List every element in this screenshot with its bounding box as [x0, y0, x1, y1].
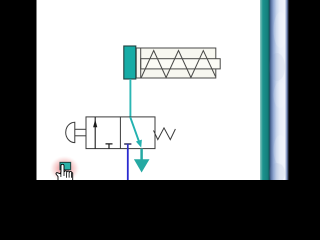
white workspace background: [0, 0, 320, 180]
valve left box blocked port T: [106, 144, 113, 149]
valve right box exhaust path (teal diagonal 2 to 3): [130, 117, 139, 141]
cylinder piston (teal, retracted): [124, 46, 136, 79]
right black pillarbox bar: [289, 0, 320, 180]
cylinder return spring: [141, 51, 215, 78]
air supply component (teal box under cursor): [60, 162, 71, 169]
wire valve port 1 down (blue supply line): [127, 149, 129, 180]
valve 3/2 body: [86, 117, 155, 149]
valve push button actuator: [66, 122, 75, 142]
pink glow highlight under cursor: [50, 156, 80, 182]
valve box divider: [119, 117, 121, 149]
cylinder piston rod: [141, 59, 221, 69]
right panel cloud highlights: [274, 12, 288, 48]
hand cursor: [56, 164, 73, 182]
right fade to black strip: [285, 0, 289, 180]
cylinder piston face line: [140, 48, 142, 78]
valve left box flow arrow (1 to 2): [94, 117, 96, 149]
valve right box blocked port 1 T (blue): [124, 143, 131, 145]
valve return spring: [154, 128, 176, 140]
wire cylinder to valve port 2 (teal flow): [129, 79, 131, 117]
exhaust flow arrow (teal, big): [140, 149, 143, 161]
left black pillarbox bar: [0, 0, 37, 180]
right teal sidebar bar: [260, 0, 270, 180]
right blue gradient panel: [270, 0, 286, 180]
cylinder body A1: [136, 48, 216, 78]
